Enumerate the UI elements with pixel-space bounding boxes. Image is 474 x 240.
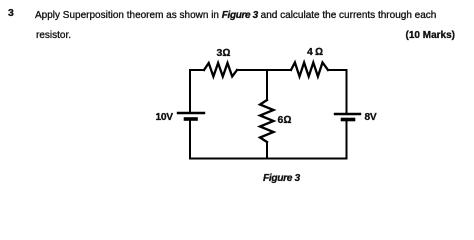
resistor R3 6ohm zigzag [260, 100, 274, 142]
wire left rail upper [189, 70, 191, 113]
wire top-right segment [328, 69, 347, 71]
wire right rail upper [346, 70, 348, 114]
marks label [406, 30, 455, 41]
wire top-left segment [190, 69, 204, 71]
resistor R2 4ohm zigzag [291, 63, 328, 77]
label 6 ohm [278, 114, 292, 126]
question text line 2 [36, 30, 71, 41]
label 10V [156, 112, 173, 123]
battery V1 10V long plate [178, 112, 204, 114]
question text line 1 [35, 10, 436, 21]
label 8V [365, 112, 377, 123]
wire bottom [190, 158, 347, 160]
battery V1 10V short plate [186, 117, 197, 121]
label 3 ohm [217, 47, 231, 59]
wire left rail lower [189, 121, 191, 159]
battery V2 8V long plate [335, 113, 360, 115]
question number 3 [8, 7, 14, 19]
label 4 ohm [307, 46, 323, 58]
wire middle branch lower [266, 142, 268, 159]
wire right rail lower [346, 121, 348, 158]
wire top-middle segment [237, 69, 291, 71]
caption Figure 3 [263, 173, 300, 184]
battery V2 8V short plate [343, 118, 354, 122]
resistor R1 3ohm zigzag [204, 63, 237, 77]
wire middle branch upper [266, 70, 268, 100]
